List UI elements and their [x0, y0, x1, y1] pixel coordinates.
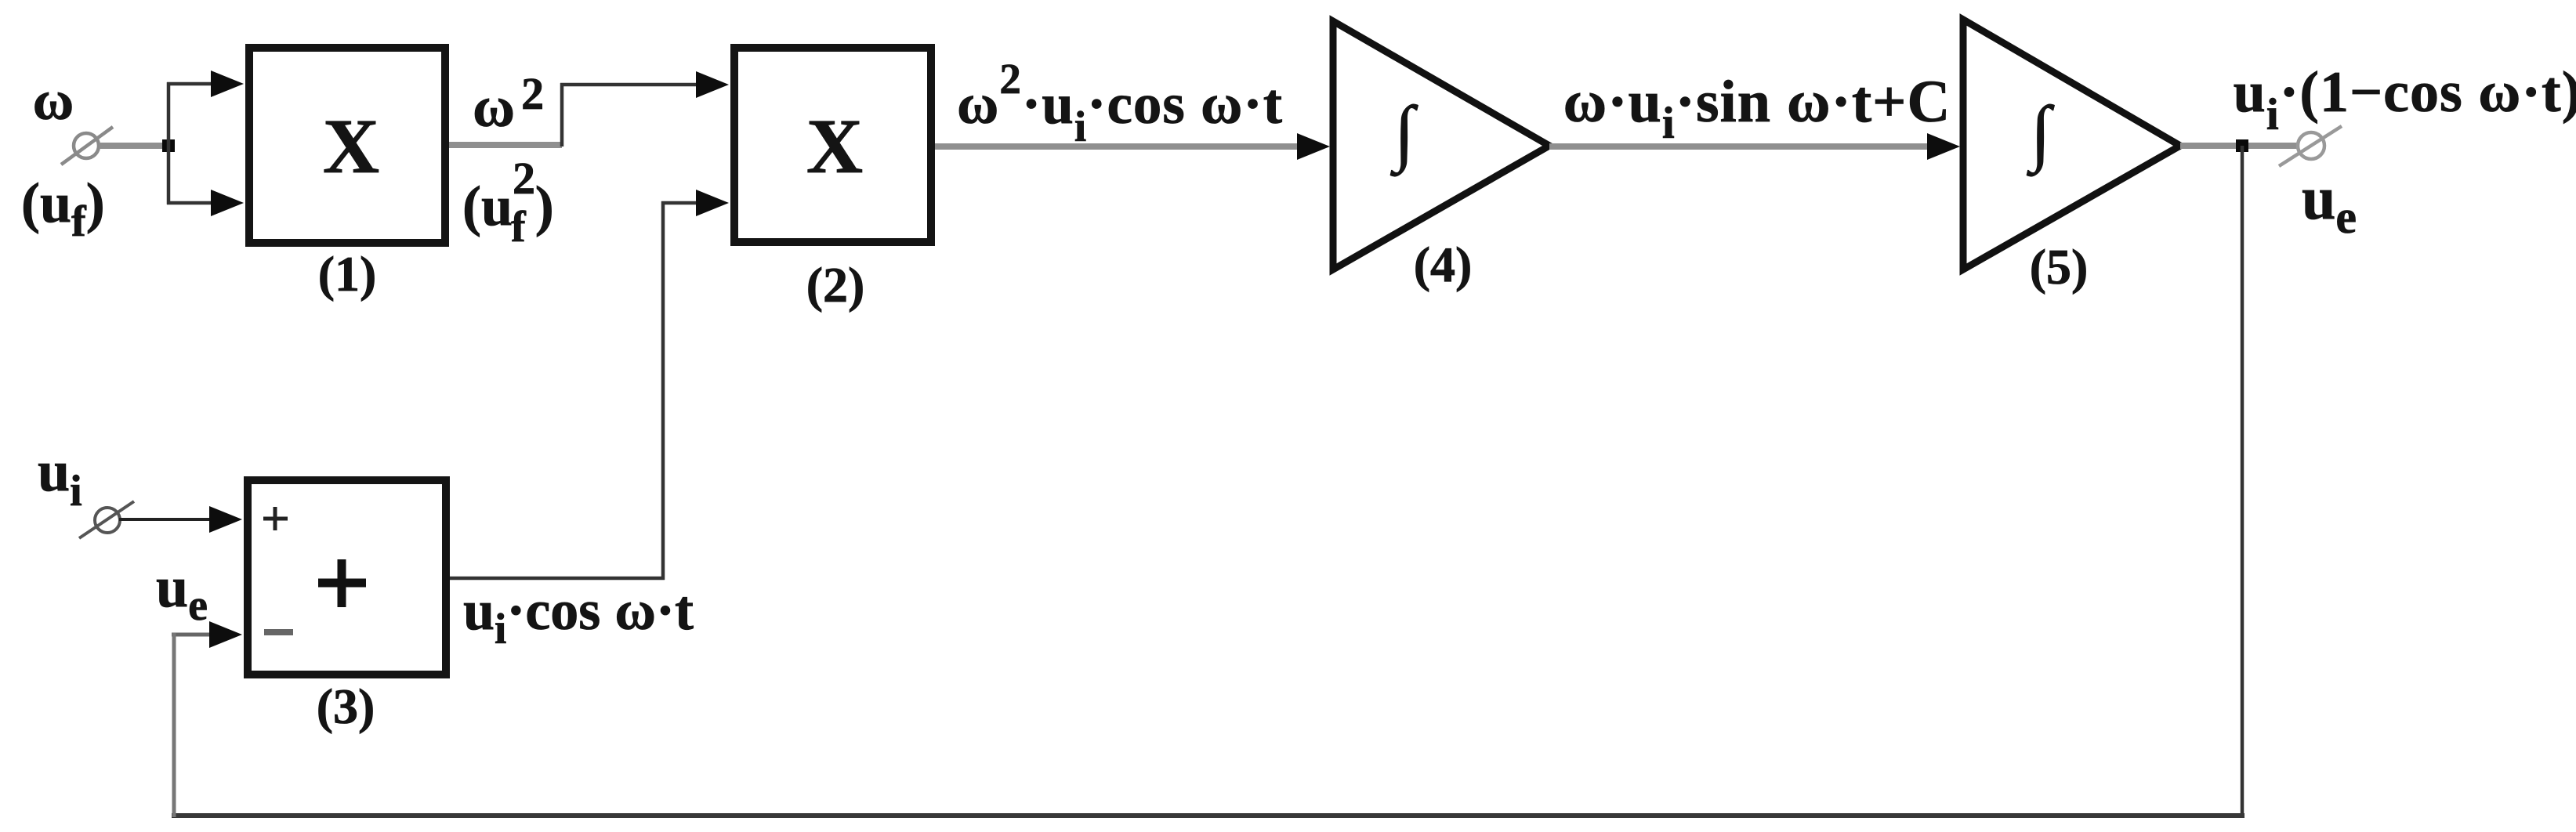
svg-text:(3): (3)	[317, 678, 375, 734]
arrowhead into integrator 4	[1297, 133, 1330, 160]
svg-text:(4): (4)	[1414, 237, 1473, 292]
wire summer output vertical to box2	[661, 201, 665, 580]
label (3)	[317, 678, 375, 734]
wire feedback right vertical	[2241, 146, 2244, 813]
node ue output label	[2302, 164, 2357, 243]
input terminal ui	[79, 501, 134, 538]
node formula omega^2 ui cos	[957, 55, 1283, 150]
integrator block (5)	[1963, 20, 2180, 269]
integrator block (4)	[1333, 21, 1549, 269]
wire integrator4 output	[1549, 143, 1929, 150]
node ui input label	[38, 440, 82, 515]
summer small minus sign	[264, 629, 293, 635]
output terminal	[2279, 126, 2342, 166]
arrowhead box2 upper input	[696, 71, 729, 98]
svg-text:X: X	[323, 103, 379, 190]
node formula omega ui sin	[1563, 69, 1951, 148]
svg-text:ω: ω	[33, 69, 74, 132]
label (5)	[2030, 239, 2089, 295]
wire branch to box1 lower input	[167, 201, 213, 205]
multiplier block (2)	[734, 48, 931, 242]
wire branch vertical	[167, 82, 171, 204]
arrowhead into integrator 5	[1927, 133, 1960, 160]
arrowhead box1 upper input	[211, 71, 244, 97]
wire branch to box1 upper input	[167, 82, 213, 86]
wire box2 output	[935, 143, 1299, 150]
label (4)	[1414, 237, 1473, 292]
wire feedback bottom horizontal	[172, 813, 2244, 818]
svg-text:∫: ∫	[1390, 92, 1418, 177]
label (2)	[806, 257, 865, 313]
arrowhead box1 lower input	[211, 190, 244, 216]
wire omega terminal to branch	[99, 143, 167, 149]
summer big plus sign	[318, 559, 366, 607]
multiplier block (1)	[249, 48, 445, 243]
wire into box2 lower input	[661, 201, 700, 205]
node omega squared label	[473, 68, 544, 139]
svg-text:(2): (2)	[806, 257, 865, 313]
arrowhead summer plus input	[209, 506, 242, 533]
node output junction dot	[2236, 139, 2248, 152]
wire summer output	[450, 577, 665, 581]
node formula ui (1-cos)	[2234, 60, 2576, 139]
arrowhead box2 lower input	[696, 190, 729, 216]
svg-text:X: X	[806, 103, 863, 190]
wire jog vertical up	[560, 83, 564, 147]
arrowhead summer minus input	[209, 621, 242, 648]
svg-text:∫: ∫	[2027, 92, 2055, 177]
node omega input label	[33, 69, 74, 132]
wire feedback into minus	[172, 633, 213, 637]
summer small plus sign	[263, 507, 288, 530]
wire jog to box2 upper input	[560, 83, 700, 87]
summer block (3)	[248, 480, 446, 675]
wire ui input	[119, 518, 213, 521]
svg-text:(5): (5)	[2030, 239, 2089, 295]
wire integrator5 output	[2180, 143, 2298, 149]
svg-text:(1): (1)	[318, 246, 377, 302]
wire feedback left vertical	[172, 633, 176, 817]
node (uf) input label	[21, 172, 105, 246]
wire box1 output	[449, 142, 562, 148]
node (uf squared) label	[462, 153, 554, 251]
node ui cos label	[463, 579, 694, 653]
node ue feedback label	[156, 555, 208, 630]
input terminal omega	[61, 127, 113, 165]
node branch junction dot	[162, 139, 175, 152]
label (1)	[318, 246, 377, 302]
